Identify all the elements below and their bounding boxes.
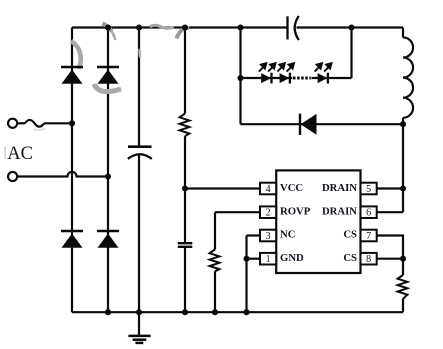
- LED1: [261, 73, 271, 84]
- node inductor / diode row: [400, 121, 406, 127]
- node bottom bus / GND branch: [243, 309, 249, 315]
- grey artifact streak right of node C: [150, 25, 175, 28]
- svg-text:CS: CS: [343, 252, 357, 264]
- wire drain rail: [402, 118, 404, 212]
- resistor R2 (ROVP): [210, 250, 220, 272]
- svg-text:NC: NC: [280, 229, 295, 241]
- wire drain to pin6: [377, 211, 403, 213]
- LED1 emission arrows: [259, 63, 276, 71]
- diode D5 (freewheel, points left): [300, 114, 317, 135]
- wire rail D lower: [184, 248, 186, 313]
- LED2: [280, 73, 290, 84]
- svg-text:GND: GND: [280, 252, 304, 264]
- ellipsis dots (LED string continuation): [293, 77, 311, 80]
- grey artifact tick below node C: [138, 49, 141, 58]
- node top bus / rail B: [105, 24, 111, 30]
- wire rail D middle: [184, 136, 186, 243]
- wire ROVP branch vertical upper: [214, 212, 216, 249]
- wire rail C lower: [138, 154, 140, 313]
- pin 2 box: [260, 206, 276, 218]
- wire LED row right: [312, 77, 352, 79]
- node CS: [400, 256, 406, 262]
- svg-text:VCC: VCC: [280, 182, 303, 194]
- wire fuse to rail A: [44, 122, 72, 124]
- wire AC live input: [17, 122, 25, 124]
- wire inductor top lead: [402, 28, 404, 38]
- wire GND from pin1: [247, 258, 261, 260]
- svg-text:DRAIN: DRAIN: [322, 205, 357, 217]
- capacitor C2 (VCC, rail D): [178, 243, 193, 247]
- svg-text:ROVP: ROVP: [280, 205, 311, 217]
- pin 4 box: [260, 183, 276, 195]
- node top bus / LED branch right: [348, 24, 354, 30]
- svg-text:CS: CS: [343, 229, 357, 241]
- node bottom bus / rail D: [182, 309, 188, 315]
- wire LED branch left vertical: [239, 28, 241, 125]
- grey artifact mark at node D: [177, 28, 190, 39]
- LED3: [318, 73, 328, 84]
- diode D1 (bridge, upper left): [61, 67, 83, 84]
- resistor R1 (startup, rail D): [180, 114, 190, 137]
- grey artifact swoosh near diode D1: [71, 41, 81, 69]
- wire top bus left segment: [72, 26, 287, 28]
- svg-text:DRAIN: DRAIN: [322, 182, 357, 194]
- capacitor C3 (top coupling) plates: [288, 16, 299, 40]
- grey artifact ribbon tail at node B: [112, 31, 116, 40]
- wire ROVP from pin2: [215, 211, 260, 213]
- node GND / NC branch: [243, 256, 249, 262]
- pin 8 box: [361, 253, 377, 265]
- wire CS sense upper: [402, 259, 404, 275]
- node top bus / rail C: [136, 24, 142, 30]
- svg-text:4: 4: [266, 184, 271, 195]
- pin 6 box: [361, 206, 377, 218]
- node bottom bus / ground: [136, 309, 142, 315]
- node bottom bus / ROVP branch: [212, 309, 218, 315]
- svg-text:2: 2: [266, 208, 271, 219]
- LED2 emission arrows: [277, 63, 294, 71]
- pin 3 box: [260, 230, 276, 242]
- resistor R3 (CS sense): [398, 275, 408, 299]
- diode D3 (bridge, lower left): [61, 231, 83, 248]
- grey artifact shadow below fuse: [33, 128, 45, 131]
- wire left rail A vertical: [71, 28, 73, 313]
- node AC neutral / rail B: [105, 173, 111, 179]
- svg-text:7: 7: [366, 231, 371, 242]
- svg-text:5: 5: [366, 184, 371, 195]
- node top bus / LED branch left: [237, 24, 243, 30]
- inductor L1: [403, 37, 413, 117]
- ground: [128, 312, 150, 343]
- wire CS sense lower: [402, 299, 404, 312]
- svg-text:6: 6: [366, 208, 371, 219]
- AC terminal bottom: [8, 172, 17, 181]
- node VCC / rail D: [182, 185, 188, 191]
- pin 7 box: [361, 230, 377, 242]
- pin 1 box: [260, 253, 276, 265]
- wire CS pin8: [377, 258, 403, 260]
- wire NC from pin3: [247, 234, 261, 236]
- node top bus / rail D: [182, 24, 188, 30]
- wire rail C vertical (electrolytic cap branch): [138, 28, 140, 147]
- wire AC neutral with hop over rail A: [17, 172, 108, 177]
- wire CS pin7: [377, 236, 403, 259]
- wire NC/GND branch vertical: [245, 236, 247, 313]
- fuse F1: [25, 120, 44, 127]
- grey artifact bar left of AC label: [5, 147, 6, 159]
- node AC live / rail A: [69, 120, 75, 126]
- diode D4 (bridge, lower right): [97, 231, 119, 248]
- svg-text:AC: AC: [7, 144, 33, 164]
- wire rail D upper: [184, 28, 186, 114]
- grey artifact ribbon at node B: [103, 24, 112, 32]
- wire LED branch right vertical: [350, 28, 352, 79]
- wire rail B vertical: [107, 28, 109, 313]
- node bottom bus / rail B: [105, 309, 111, 315]
- grey artifact swoosh below diode D2: [94, 84, 121, 92]
- capacitor C1 electrolytic plates: [128, 147, 152, 159]
- wire top bus right segment: [297, 26, 404, 28]
- wire freewheel diode row: [241, 123, 404, 125]
- IC U1 body: [276, 170, 360, 273]
- LED3 emission arrows: [315, 63, 332, 71]
- node LED row left: [237, 75, 243, 81]
- pin 5 box: [361, 183, 377, 195]
- AC terminal top: [8, 119, 17, 128]
- wire drain to pin5: [377, 187, 403, 189]
- wire LED row left: [241, 77, 293, 79]
- svg-text:1: 1: [266, 254, 271, 265]
- svg-text:3: 3: [266, 231, 271, 242]
- diode D2 (bridge, upper right): [97, 67, 119, 84]
- node drain: [400, 185, 406, 191]
- wire bottom bus: [72, 311, 403, 313]
- wire ROVP branch vertical lower: [214, 271, 216, 312]
- wire VCC from rail D to pin4: [185, 187, 260, 189]
- svg-text:8: 8: [366, 254, 371, 265]
